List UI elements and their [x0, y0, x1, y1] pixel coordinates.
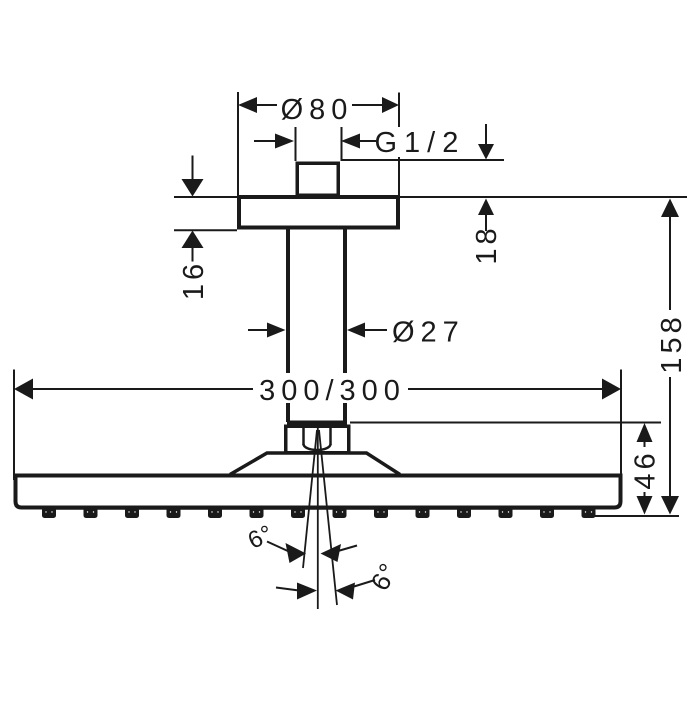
angle 6 lower-left arrow: [276, 583, 317, 600]
spray face baseline: [55, 507, 594, 510]
dimension 18: [478, 124, 494, 231]
pipe end band: [287, 421, 347, 429]
collar nut: [286, 426, 349, 453]
nozzles: [42, 508, 596, 519]
svg-text:16: 16: [178, 260, 210, 300]
dimension Ø27: [248, 323, 387, 338]
pipe right edge: [343, 228, 347, 373]
svg-text:Ø80: Ø80: [281, 94, 354, 126]
angle 6 upper-right arrow: [321, 544, 358, 562]
spray left line: [303, 430, 317, 568]
dimension 16: [182, 156, 204, 262]
pipe left edge: [286, 228, 290, 373]
bottom extension line right: [593, 515, 679, 517]
svg-text:300/300: 300/300: [259, 375, 406, 407]
flange bottom extension line left: [174, 229, 237, 231]
svg-text:158: 158: [656, 313, 688, 373]
G1/2 connector square: [297, 163, 338, 195]
svg-text:46: 46: [630, 449, 662, 489]
ceiling line: [174, 196, 687, 198]
nozzle dots: [45, 511, 592, 512]
dimension 46: [637, 423, 653, 515]
angle 6 lower-right arrow: [336, 580, 376, 600]
shower head body: [16, 476, 621, 508]
svg-text:Ø27: Ø27: [392, 317, 465, 349]
flange (ceiling plate): [239, 197, 398, 228]
inner nut: [304, 428, 331, 450]
extension line top of collar (46): [350, 422, 661, 424]
dome trapezoid: [230, 453, 400, 475]
dimension Ø80: [238, 92, 399, 196]
svg-text:18: 18: [471, 224, 503, 264]
spray right line: [319, 430, 337, 605]
dimension G1/2: [254, 127, 376, 161]
angle 6 upper-left arrow: [267, 542, 306, 564]
dimension 300/300: [14, 370, 621, 481]
spray centre line: [317, 428, 319, 609]
extension line under G1/2: [341, 159, 504, 161]
dimension 158: [661, 199, 679, 515]
svg-text:G1/2: G1/2: [375, 127, 466, 159]
